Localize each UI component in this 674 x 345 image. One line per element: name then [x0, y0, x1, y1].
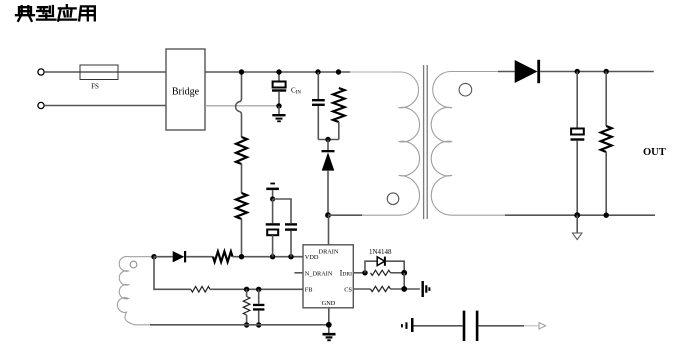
primary phase dot	[387, 193, 399, 205]
wire FB	[154, 257, 191, 290]
svg-text:OUT: OUT	[643, 147, 666, 158]
diode D3 output	[515, 60, 540, 83]
wire	[386, 261, 404, 273]
resistor Rst1	[236, 137, 247, 164]
wire HV+ rail	[205, 71, 350, 73]
wire secondary top	[498, 71, 515, 73]
node dot	[151, 254, 156, 259]
ground inverted	[266, 183, 279, 199]
diode D5 1N4148	[369, 248, 392, 266]
capacitor C4	[285, 223, 297, 257]
svg-text:VDD: VDD	[305, 254, 319, 261]
ground	[272, 106, 285, 122]
ground primary	[323, 333, 336, 341]
svg-text:N_DRAIN: N_DRAIN	[305, 270, 333, 277]
diode D4 aux	[173, 251, 187, 262]
node dot	[276, 103, 281, 108]
resistor Rload	[601, 72, 612, 216]
bridge rectifier	[166, 49, 205, 130]
wire	[44, 105, 166, 107]
transformer T1 secondary winding	[431, 72, 505, 216]
wire	[403, 273, 405, 289]
svg-text:CIN: CIN	[291, 87, 301, 96]
wire light	[350, 71, 392, 73]
node dot	[256, 287, 261, 292]
wire	[414, 325, 463, 327]
node arrow	[539, 323, 546, 329]
node dot	[575, 69, 580, 74]
fuse FS	[80, 65, 118, 91]
aux phase dot	[130, 261, 137, 268]
node dot	[604, 69, 609, 74]
svg-text:FS: FS	[91, 83, 99, 91]
node dot	[239, 254, 244, 259]
node dot	[256, 322, 261, 327]
node dot	[315, 69, 320, 74]
wire GND pin	[328, 308, 330, 333]
secondary phase dot	[459, 83, 472, 96]
wire	[540, 71, 654, 73]
capacitor Cout	[571, 72, 585, 216]
wire bridge negative	[205, 105, 279, 107]
transformer T1 primary winding	[362, 72, 420, 215]
capacitor Csn	[312, 72, 325, 140]
transformer core	[423, 65, 425, 219]
node dot	[276, 69, 281, 74]
resistor Rsn	[333, 88, 345, 140]
wire	[365, 261, 377, 273]
node dot	[401, 270, 407, 276]
node dot	[325, 137, 330, 142]
node dot	[270, 254, 275, 259]
node dot	[288, 254, 293, 259]
wire	[241, 219, 243, 257]
node dot	[326, 322, 332, 328]
resistor Rcs	[371, 286, 391, 291]
node dot	[401, 286, 407, 292]
node dot	[574, 212, 580, 218]
input terminal J2	[38, 102, 44, 108]
wire startup sense with hop	[236, 72, 242, 137]
svg-text:DRAIN: DRAIN	[319, 248, 339, 255]
svg-text:CS: CS	[344, 287, 352, 294]
node dot	[239, 69, 244, 74]
svg-text:FB: FB	[305, 287, 313, 294]
resistor Rvdd	[213, 252, 233, 262]
wire secondary bottom rail	[505, 214, 655, 216]
node dot	[270, 196, 275, 201]
op-amp U1 controller IC	[303, 245, 353, 308]
wire	[186, 256, 213, 258]
node dot	[244, 322, 249, 327]
wire ground rail	[150, 324, 329, 326]
wire	[210, 288, 303, 290]
ground Y-cap left	[401, 318, 414, 332]
resistor Rfb1	[191, 287, 210, 293]
svg-text:Bridge: Bridge	[172, 87, 200, 98]
resistor Rdri	[371, 270, 391, 275]
wire drain to IC	[328, 215, 330, 245]
wire	[233, 256, 304, 258]
wire snubber join	[318, 139, 339, 141]
wire CS	[353, 288, 370, 290]
svg-text:1N4148: 1N4148	[369, 248, 392, 256]
wire	[241, 164, 243, 193]
node drain	[325, 212, 331, 218]
wire	[154, 256, 173, 258]
node dot	[362, 270, 367, 275]
wire	[327, 140, 329, 152]
wire N_DRAIN stub	[294, 272, 303, 274]
resistor Rfb2	[243, 289, 250, 325]
capacitor CIN	[272, 72, 301, 106]
svg-text:GND: GND	[322, 300, 336, 307]
ground CS side	[422, 281, 431, 297]
capacitor C3	[266, 199, 280, 257]
wire	[391, 272, 405, 274]
wire	[478, 325, 524, 327]
wire drain to primary	[328, 214, 362, 216]
wire faint	[524, 325, 539, 327]
wire DRI	[353, 272, 365, 274]
ground secondary	[572, 215, 582, 239]
diode D2 clamp	[322, 150, 335, 215]
input terminal J1	[38, 69, 44, 75]
wire	[118, 71, 166, 73]
transformer aux winding	[117, 256, 154, 324]
wire	[273, 199, 291, 223]
capacitor C5	[253, 289, 264, 325]
wire	[391, 288, 420, 290]
capacitor Y1	[463, 311, 479, 341]
resistor Rst2	[236, 193, 247, 219]
title 典型应用	[16, 5, 95, 21]
node dot	[336, 69, 341, 74]
node dot	[244, 287, 249, 292]
wire	[44, 71, 80, 73]
node dot	[604, 213, 609, 218]
